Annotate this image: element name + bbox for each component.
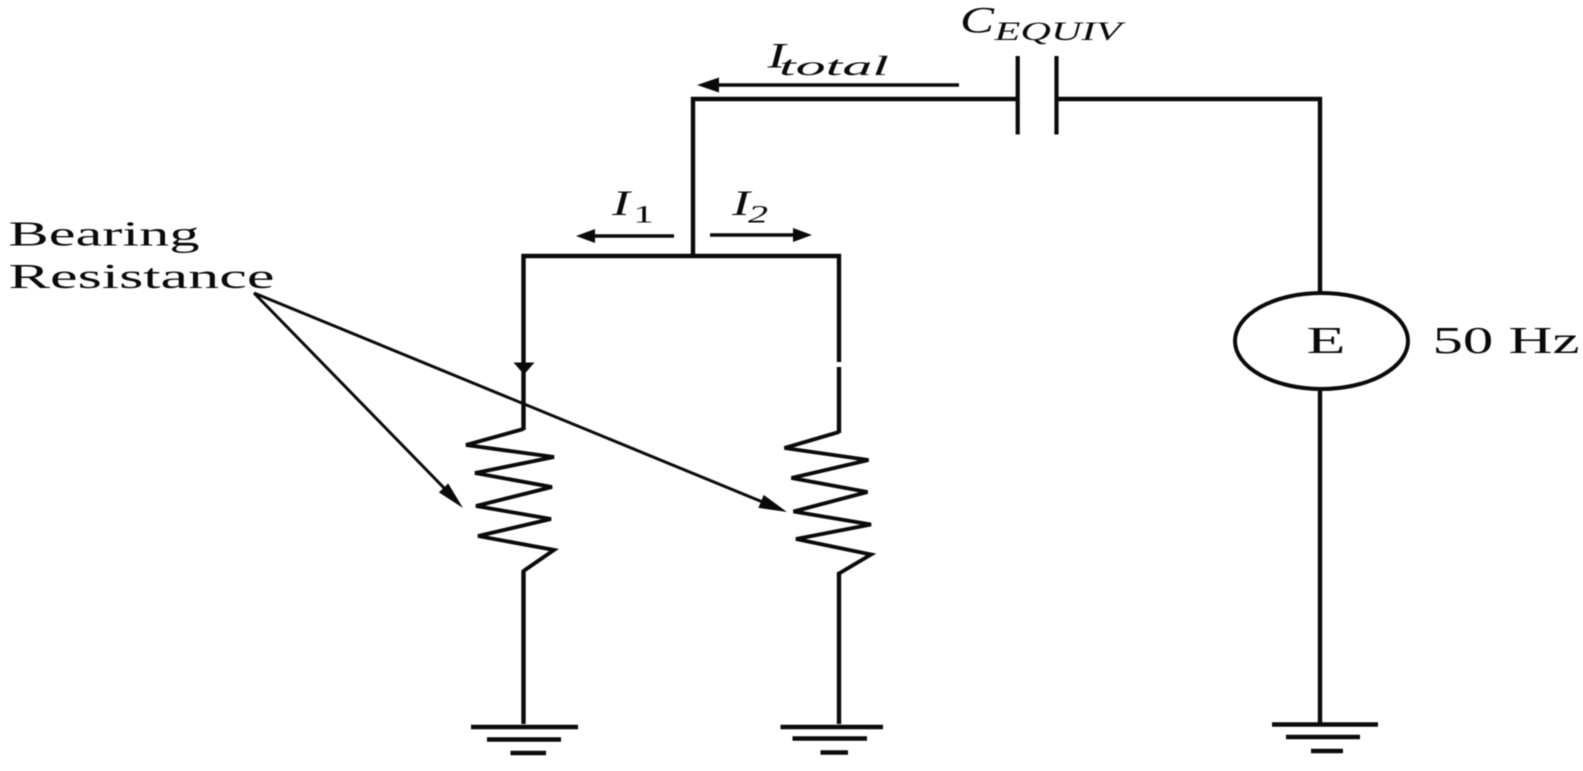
- pointer arrow to R1: [254, 293, 447, 491]
- wire left branch lower: [521, 570, 525, 724]
- svg-text:Bearing: Bearing: [9, 215, 200, 254]
- svg-text:1: 1: [633, 202, 654, 229]
- arrow I_total: [697, 78, 959, 93]
- wire right branch upper: [837, 254, 841, 433]
- source E ellipse: [1235, 293, 1408, 389]
- svg-text:total: total: [779, 51, 889, 81]
- svg-text:Resistance: Resistance: [9, 257, 275, 296]
- svg-text:C: C: [960, 1, 996, 42]
- resistor R1 zigzag: [466, 429, 554, 571]
- capacitor C_EQUIV plates: [1018, 56, 1057, 135]
- arrowhead down on left branch: [514, 363, 535, 375]
- svg-text:2: 2: [748, 202, 768, 229]
- wire left vertical drop: [691, 97, 695, 256]
- resistor R2 zigzag: [785, 432, 872, 574]
- arrow I1: [576, 229, 674, 243]
- svg-text:I: I: [611, 183, 634, 223]
- svg-text:EQUIV: EQUIV: [993, 17, 1127, 46]
- wire left branch upper: [521, 254, 525, 430]
- wire distribution horizontal: [522, 254, 842, 258]
- pointer arrow to R2: [254, 293, 765, 503]
- arrow I2: [710, 228, 812, 242]
- wire right branch lower: [837, 572, 841, 724]
- ground right: [1272, 722, 1378, 727]
- wire source vertical upper: [1318, 97, 1322, 292]
- svg-text:E: E: [1307, 320, 1346, 362]
- wire top left horizontal: [691, 97, 1016, 101]
- svg-text:50 Hz: 50 Hz: [1433, 320, 1580, 362]
- ground left: [471, 725, 578, 730]
- wire source vertical lower: [1318, 389, 1322, 724]
- wire top right horizontal: [1057, 97, 1322, 101]
- ground middle: [781, 725, 884, 730]
